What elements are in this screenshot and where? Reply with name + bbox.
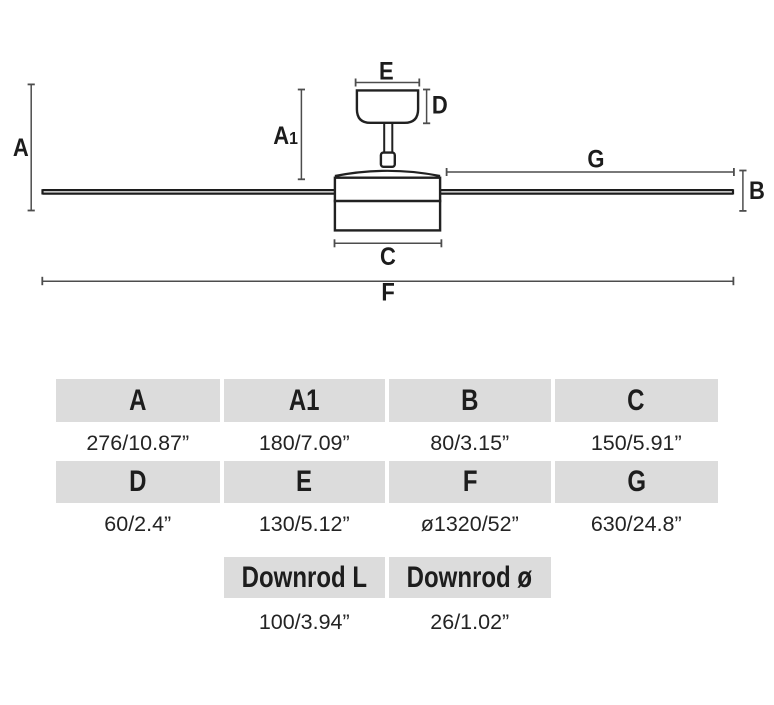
svg-text:D: D <box>432 91 448 119</box>
svg-text:C: C <box>380 243 396 271</box>
svg-text:E: E <box>379 57 394 85</box>
svg-text:F: F <box>381 278 394 306</box>
svg-text:G: G <box>587 145 604 173</box>
svg-text:A: A <box>13 134 29 162</box>
svg-text:A1: A1 <box>273 122 298 150</box>
svg-text:B: B <box>749 177 765 205</box>
